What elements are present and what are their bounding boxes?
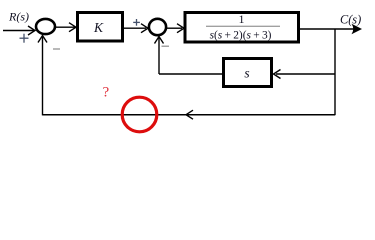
svg-text:s(s + 2)(s + 3): s(s + 2)(s + 3) bbox=[210, 30, 272, 42]
svg-text:C(s): C(s) bbox=[340, 12, 361, 26]
svg-text:R(s): R(s) bbox=[8, 9, 29, 23]
svg-text:?: ? bbox=[103, 84, 110, 100]
svg-text:s: s bbox=[244, 66, 249, 81]
svg-text:K: K bbox=[93, 20, 104, 35]
svg-text:1: 1 bbox=[239, 12, 245, 26]
